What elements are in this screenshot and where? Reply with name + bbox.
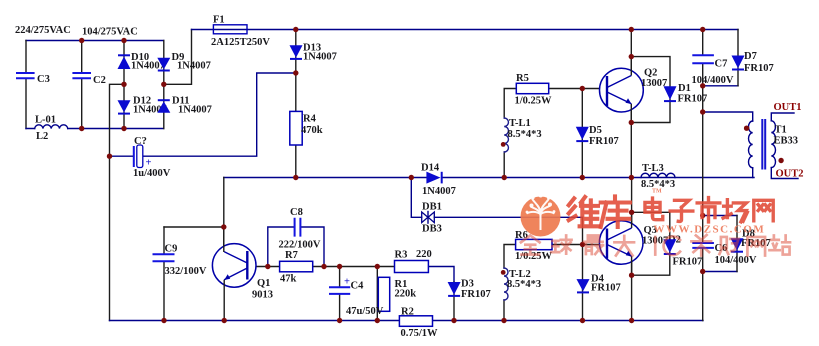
node D13 top rail	[293, 27, 298, 32]
svg-text:1/0.25W: 1/0.25W	[515, 96, 553, 107]
svg-text:R3: R3	[395, 250, 408, 261]
svg-text:222/100V: 222/100V	[279, 240, 321, 251]
diode D13	[290, 45, 303, 59]
svg-text:104/400V: 104/400V	[715, 255, 757, 266]
wire OUT1 lead	[771, 113, 794, 121]
faint char cai	[691, 235, 711, 256]
fuse F1	[213, 25, 247, 34]
svg-text:FR107: FR107	[589, 136, 619, 147]
wire D5 column	[581, 89, 583, 178]
wire L2 row	[26, 128, 164, 130]
wire C4 leads	[339, 267, 341, 321]
svg-text:TM: TM	[652, 189, 662, 195]
capacitor C7	[692, 55, 714, 63]
node D10 top	[121, 38, 126, 43]
node C4 bottom rail	[337, 318, 342, 323]
node R1 R3	[375, 264, 380, 269]
svg-text:OUT1: OUT1	[774, 102, 802, 113]
svg-text:C7: C7	[715, 59, 728, 70]
svg-text:D7: D7	[744, 51, 757, 62]
watermark char zi	[670, 200, 693, 221]
svg-text:1N4007: 1N4007	[178, 105, 212, 116]
wire R5 T-L1 branch	[504, 89, 516, 178]
svg-text:C9: C9	[165, 244, 178, 255]
svg-text:1u/400V: 1u/400V	[133, 168, 171, 179]
capacitor C3	[16, 73, 35, 78]
wire top AC rail y=40.5	[26, 40, 164, 42]
capacitor C2	[72, 73, 91, 78]
capacitor C8	[295, 218, 301, 237]
wire bridge left column	[123, 41, 125, 129]
svg-text:DB1: DB1	[422, 202, 442, 213]
svg-text:D3: D3	[461, 279, 474, 290]
resistor R1	[378, 277, 389, 311]
faint char gou	[719, 237, 738, 254]
resistor R5	[516, 83, 548, 93]
svg-text:1N4007: 1N4007	[303, 52, 337, 63]
faint char qiu	[551, 235, 571, 253]
wire Q1 collector branch	[164, 178, 224, 253]
svg-text:T1: T1	[775, 125, 787, 136]
transformer T1 primary winding	[749, 121, 753, 168]
DIODES	[118, 45, 745, 296]
wire C7 to D7 stub	[703, 85, 738, 87]
node Q1 emitter rail	[222, 318, 227, 323]
wire bottom rail y=320.5	[110, 320, 704, 322]
node T1 primary top	[700, 109, 705, 114]
node R4 bottom	[293, 175, 298, 180]
watermark char ku	[601, 196, 630, 227]
svg-text:C?: C?	[134, 136, 147, 147]
transistor Q1	[212, 227, 256, 321]
wire OUT2 lead	[771, 168, 798, 179]
wire C9 leads	[163, 227, 165, 321]
svg-text:47u/50V: 47u/50V	[346, 306, 384, 317]
svg-text:R2: R2	[401, 307, 414, 318]
svg-text:EB33: EB33	[774, 136, 799, 147]
diode D10	[118, 55, 131, 69]
diode D5	[576, 127, 589, 141]
svg-text:9013: 9013	[252, 290, 273, 301]
node C2 bottom	[79, 126, 84, 131]
svg-text:D14: D14	[421, 163, 440, 174]
watermark char dian	[645, 198, 663, 220]
node C2 top	[79, 38, 84, 43]
node DB1 tap	[409, 175, 414, 180]
svg-text:+: +	[146, 158, 152, 169]
wire Q1 base row	[247, 266, 394, 268]
svg-text:T-L1: T-L1	[509, 118, 531, 129]
faint char I	[650, 237, 661, 255]
wire T1 primary top feed	[703, 112, 753, 121]
svg-text:332/100V: 332/100V	[165, 266, 207, 277]
node D13 cathode	[293, 70, 298, 75]
diode D3	[448, 282, 461, 296]
diode D2	[663, 239, 676, 254]
diode D9	[157, 58, 170, 71]
wire D1 loop	[631, 57, 670, 123]
capacitor C9	[153, 254, 175, 261]
node bridge mid-left	[121, 82, 126, 87]
node D3 bottom rail	[451, 318, 456, 323]
wire C2 leads	[81, 41, 83, 129]
diode D7	[732, 56, 745, 70]
node Q2 base D5	[580, 86, 585, 91]
wire DB1 branch	[411, 178, 582, 218]
svg-text:220k: 220k	[395, 289, 417, 300]
wire D4 column	[582, 245, 584, 321]
svg-text:WWW.DZSC.COM: WWW.DZSC.COM	[654, 224, 766, 236]
svg-text:C4: C4	[351, 281, 365, 292]
svg-text:L-01: L-01	[35, 115, 56, 126]
diode D11	[157, 100, 170, 113]
svg-text:+: +	[344, 277, 350, 288]
wire D13 R4 column	[295, 30, 297, 178]
wire C7 C6 column x=703	[702, 30, 704, 321]
node C4 top	[337, 264, 342, 269]
svg-text:13007: 13007	[641, 78, 667, 89]
node C7 rail	[700, 27, 705, 32]
node R7 C8 right	[321, 264, 326, 269]
wire diac to Q3 base	[582, 217, 584, 244]
faint char quan	[521, 235, 540, 254]
resistor R2	[399, 316, 432, 327]
transformer T1 core	[762, 120, 765, 169]
node C9 bottom rail	[161, 318, 166, 323]
resistor R3	[395, 261, 429, 273]
node Q2 collector D1	[629, 54, 634, 59]
watermark char wei	[569, 197, 599, 226]
wire Q3 base row	[552, 244, 607, 246]
inductor T-L3 coil	[641, 173, 675, 177]
node Q2 emitter D1	[629, 120, 634, 125]
node T-L2 bottom rail	[501, 318, 506, 323]
svg-text:FR107: FR107	[678, 94, 708, 105]
node Q3 emitter rail	[629, 318, 634, 323]
watermark char chang	[723, 200, 747, 222]
wire C? row y=156.2	[110, 73, 296, 156]
diode D8	[731, 238, 744, 251]
transistor Q3	[599, 212, 643, 275]
wire C8 loop	[268, 227, 324, 267]
wire D2 loop	[632, 212, 670, 275]
svg-text:FR107: FR107	[744, 63, 774, 74]
svg-text:C2: C2	[93, 75, 106, 86]
wire D7 column	[737, 30, 739, 86]
svg-text:DB3: DB3	[422, 224, 442, 235]
svg-text:104/275VAC: 104/275VAC	[82, 27, 138, 38]
node R1 bottom rail	[375, 318, 380, 323]
svg-text:R5: R5	[516, 73, 529, 84]
wire R3 right lead to D3	[428, 267, 454, 283]
svg-text:1N4007: 1N4007	[177, 61, 211, 72]
transistor Q2	[600, 57, 644, 123]
wire C3 leads	[25, 41, 27, 129]
node Q1 base R7	[265, 264, 270, 269]
resistor R6	[516, 239, 552, 249]
svg-text:1N4007: 1N4007	[422, 186, 456, 197]
wire C6 to D8 stubs	[703, 216, 737, 272]
diode D4	[577, 279, 590, 292]
node T-L2 phase dot	[501, 270, 506, 275]
svg-text:Q1: Q1	[257, 278, 270, 289]
watermark logo circle	[521, 194, 561, 237]
svg-text:C3: C3	[37, 74, 50, 85]
wire mid row y=177.5	[224, 177, 754, 179]
svg-text:C8: C8	[290, 207, 303, 218]
capacitor C6	[692, 243, 714, 248]
node C6 top D8	[700, 213, 705, 218]
node T-L1 phase dot	[501, 142, 506, 147]
capacitor C4 electrolytic	[329, 287, 350, 294]
watermark char wang	[754, 200, 773, 221]
node C? row	[107, 154, 112, 159]
wire top DC rail y=29.5	[192, 29, 739, 31]
node D5 bottom	[580, 175, 585, 180]
faint char zui	[584, 235, 603, 254]
svg-text:T-L3: T-L3	[642, 163, 664, 174]
node Q3 emitter D2	[629, 273, 634, 278]
svg-text:47k: 47k	[280, 274, 297, 285]
svg-text:L2: L2	[36, 131, 48, 142]
svg-text:220: 220	[416, 249, 432, 260]
node bridge mid-right	[161, 82, 166, 87]
node C7 D7 bottom	[700, 83, 705, 88]
capacitor C? electrolytic	[134, 145, 143, 168]
svg-text:OUT2: OUT2	[776, 169, 804, 180]
svg-text:0.75/1W: 0.75/1W	[401, 328, 439, 339]
faint char C	[664, 236, 681, 255]
svg-text:104/400V: 104/400V	[692, 75, 734, 86]
svg-text:Q2: Q2	[644, 68, 657, 79]
node C6 bottom D8	[700, 269, 705, 274]
WATERMARK	[521, 189, 791, 256]
wire Q2 emitter column	[630, 104, 632, 178]
wire mid-right stub up to fuse	[164, 30, 192, 85]
node T1 secondary phase dot	[778, 158, 783, 163]
watermark faint row	[521, 235, 790, 256]
svg-text:8.5*4*3: 8.5*4*3	[507, 279, 541, 290]
wire Q3 collector column	[631, 178, 633, 232]
inductor L2 coil	[35, 125, 68, 129]
faint char wang2	[747, 237, 765, 256]
inductor T-L2 coil	[504, 268, 508, 300]
node Q1 collector	[221, 224, 226, 229]
svg-text:R7: R7	[285, 250, 298, 261]
svg-text:R4: R4	[303, 114, 317, 125]
wire T1 primary bottom lead	[752, 168, 754, 178]
node D4 bottom rail	[580, 318, 585, 323]
svg-text:470k: 470k	[301, 125, 323, 136]
wire R1 leads	[376, 267, 378, 321]
resistor R7	[280, 261, 313, 272]
diode D14	[426, 172, 441, 184]
wire Q2 collector column	[630, 30, 632, 75]
svg-text:1/0.25W: 1/0.25W	[515, 251, 553, 262]
diode D1	[664, 86, 677, 101]
node D12 bottom	[121, 126, 126, 131]
wire Q3 emitter column	[631, 255, 633, 321]
svg-text:D5: D5	[589, 125, 602, 136]
wire Q2 base row	[549, 88, 607, 90]
node Q2 rail	[629, 27, 634, 32]
node half-bridge mid	[629, 175, 634, 180]
diode D12	[118, 100, 131, 113]
wire R6 T-L2 branch	[504, 245, 516, 321]
svg-text:D1: D1	[678, 83, 691, 94]
svg-text:2A125T250V: 2A125T250V	[211, 37, 270, 48]
transformer T1 secondary winding	[771, 121, 775, 168]
faint char zhan	[769, 235, 790, 254]
node Q3 collector D2	[629, 210, 634, 215]
wire bridge right column	[163, 41, 165, 129]
svg-text:224/275VAC: 224/275VAC	[15, 25, 71, 36]
faint char da	[614, 236, 634, 256]
svg-text:FR107: FR107	[461, 289, 491, 300]
svg-text:F1: F1	[213, 15, 225, 26]
wire D8 column	[736, 216, 738, 272]
svg-text:FR107: FR107	[591, 283, 621, 294]
node T-L1 bottom	[502, 175, 507, 180]
wire D3 column	[453, 282, 455, 321]
diac DB1 DB3	[422, 211, 435, 224]
watermark char shi	[697, 198, 720, 222]
node Q3 base D4	[580, 242, 585, 247]
svg-text:FR107: FR107	[673, 257, 703, 268]
wire mid-left stub to DC- rail	[110, 84, 125, 320]
resistor R4	[290, 111, 302, 145]
svg-text:8.5*4*3: 8.5*4*3	[508, 129, 542, 140]
node T1 primary phase dot	[744, 126, 749, 131]
inductor T-L1 coil	[504, 118, 508, 152]
